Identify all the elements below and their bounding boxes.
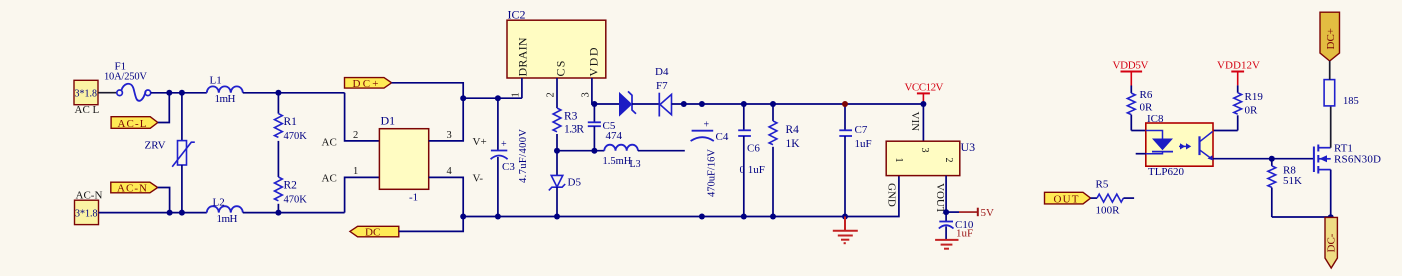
node junction xyxy=(495,214,501,220)
svg-text:AC: AC xyxy=(322,137,337,149)
svg-text:VCC12V: VCC12V xyxy=(905,82,944,94)
svg-text:1.3R: 1.3R xyxy=(564,124,584,136)
wire source xyxy=(1330,170,1332,218)
wire xyxy=(1130,86,1132,94)
port AC-N xyxy=(111,182,158,194)
svg-text:3: 3 xyxy=(919,148,930,153)
wire xyxy=(1272,216,1331,218)
wire xyxy=(158,188,170,213)
wire VOUT xyxy=(945,176,947,213)
wire xyxy=(392,83,464,98)
capacitor C7 xyxy=(839,104,871,217)
svg-text:U3: U3 xyxy=(961,140,976,154)
capacitor C3 xyxy=(491,98,529,216)
wire (V+ to rail) xyxy=(429,98,464,141)
ground (earth) xyxy=(833,217,858,244)
svg-text:1: 1 xyxy=(511,92,522,97)
svg-text:C3: C3 xyxy=(502,161,515,173)
wire xyxy=(243,212,345,214)
connector DC- xyxy=(1325,217,1338,268)
wire pin4 xyxy=(1213,130,1238,132)
svg-text:51K: 51K xyxy=(1283,175,1302,187)
node junction xyxy=(275,210,281,216)
svg-text:470uF/16V: 470uF/16V xyxy=(707,149,718,197)
wire xyxy=(151,92,207,94)
svg-text:+: + xyxy=(704,120,710,131)
svg-text:1mH: 1mH xyxy=(217,213,238,225)
svg-text:DC: DC xyxy=(365,227,380,239)
svg-text:1: 1 xyxy=(893,158,904,163)
svg-text:AC L: AC L xyxy=(75,104,100,116)
svg-text:R4: R4 xyxy=(786,124,800,136)
wire pin3 xyxy=(1213,158,1314,160)
svg-text:IC8: IC8 xyxy=(1147,113,1164,125)
wire xyxy=(1237,85,1239,92)
node junction xyxy=(920,101,926,107)
svg-text:2: 2 xyxy=(546,92,557,97)
power VCC12V xyxy=(905,82,944,105)
diode F7 xyxy=(655,66,923,117)
MOSFET RT1 xyxy=(1314,143,1381,174)
resistor 185 (box style) xyxy=(1324,80,1359,107)
resistor R6 xyxy=(1127,89,1153,131)
svg-text:RS6N30D: RS6N30D xyxy=(1334,154,1381,166)
svg-text:VDD12V: VDD12V xyxy=(1217,60,1260,72)
wire xyxy=(158,93,170,123)
resistor R2 xyxy=(275,177,308,213)
optocoupler IC8 TLP620 xyxy=(1136,113,1213,178)
wire DC+ rail xyxy=(463,97,522,99)
inductor L1 xyxy=(207,75,243,105)
wire xyxy=(638,150,685,152)
port DC+ xyxy=(345,78,392,90)
svg-text:GND: GND xyxy=(886,183,898,207)
power VDD12V xyxy=(1217,60,1260,86)
svg-text:TLP620: TLP620 xyxy=(1148,166,1185,178)
node junction xyxy=(554,148,560,154)
svg-text:+: + xyxy=(501,139,507,150)
node junction xyxy=(741,101,747,107)
svg-text:AC: AC xyxy=(322,173,337,185)
node junction xyxy=(166,90,172,96)
capacitor C5 xyxy=(588,104,623,151)
resistor R19 xyxy=(1234,91,1264,131)
svg-text:OUT: OUT xyxy=(1054,194,1079,206)
node junction xyxy=(1328,214,1334,220)
IC IC2 xyxy=(507,8,606,98)
connector DC+ xyxy=(1320,12,1340,61)
svg-text:D5: D5 xyxy=(568,177,582,189)
svg-text:R5: R5 xyxy=(1096,179,1109,191)
port OUT xyxy=(1045,192,1091,205)
svg-text:1.5mH: 1.5mH xyxy=(603,156,632,167)
svg-text:3*1.8: 3*1.8 xyxy=(75,209,98,220)
svg-text:VOUT: VOUT xyxy=(934,183,946,214)
port AC-L xyxy=(111,117,158,130)
svg-text:0R: 0R xyxy=(1140,102,1154,114)
svg-text:IC2: IC2 xyxy=(508,8,526,22)
svg-text:C6: C6 xyxy=(747,143,760,155)
svg-text:4: 4 xyxy=(447,166,453,177)
svg-text:CS: CS xyxy=(554,61,568,77)
node junction xyxy=(741,214,747,220)
power 5V xyxy=(946,207,994,219)
varistor ZRV xyxy=(145,93,195,213)
node junction (stub) xyxy=(699,214,705,220)
node junction xyxy=(275,90,281,96)
svg-text:R2: R2 xyxy=(284,180,298,192)
svg-text:L3: L3 xyxy=(630,159,641,170)
svg-text:100R: 100R xyxy=(1096,205,1121,217)
resistor R8 xyxy=(1268,159,1302,217)
svg-text:1mH: 1mH xyxy=(215,93,236,105)
svg-text:4.7uF/400V: 4.7uF/400V xyxy=(518,129,529,183)
svg-text:V-: V- xyxy=(473,173,484,185)
node junction xyxy=(681,101,687,107)
svg-text:0R: 0R xyxy=(1245,105,1259,117)
svg-text:5V: 5V xyxy=(981,207,995,219)
svg-text:470K: 470K xyxy=(284,195,308,206)
wire pin1 xyxy=(1131,130,1146,132)
node junction xyxy=(943,209,949,215)
svg-text:-1: -1 xyxy=(409,192,418,204)
svg-text:3: 3 xyxy=(447,130,452,141)
inductor L2 xyxy=(207,197,243,225)
svg-text:1uF: 1uF xyxy=(956,228,973,240)
svg-text:1uF: 1uF xyxy=(855,138,872,150)
svg-text:DRAIN: DRAIN xyxy=(516,37,530,76)
node junction xyxy=(591,101,597,107)
svg-text:1: 1 xyxy=(353,166,358,177)
svg-text:VDD: VDD xyxy=(587,47,601,76)
node junction xyxy=(554,214,560,220)
connector P2 (AC-N pad 3*1.8) xyxy=(75,190,103,225)
wire drain xyxy=(1330,106,1332,148)
svg-text:VDD5V: VDD5V xyxy=(1113,60,1149,72)
svg-text:DC-: DC- xyxy=(1326,233,1338,252)
wire pin1 xyxy=(521,78,523,98)
svg-text:R6: R6 xyxy=(1140,89,1153,101)
node junction xyxy=(1269,156,1275,162)
svg-text:C7: C7 xyxy=(855,124,868,136)
svg-text:ZRV: ZRV xyxy=(145,140,166,152)
wire ground rail xyxy=(463,176,899,217)
wire (V- down) xyxy=(429,177,464,216)
wire xyxy=(345,177,380,212)
regulator U3 xyxy=(886,112,976,214)
wire xyxy=(399,217,463,232)
node junction xyxy=(167,210,173,216)
wire xyxy=(1329,61,1331,80)
svg-text:F7: F7 xyxy=(656,80,668,92)
resistor R3 xyxy=(553,108,584,151)
bridge rectifier D1 xyxy=(322,114,487,204)
capacitor C10 xyxy=(939,212,974,240)
wire xyxy=(243,92,345,94)
node junction xyxy=(770,214,776,220)
resistor R4 xyxy=(769,104,800,217)
svg-text:2: 2 xyxy=(943,158,954,163)
svg-text:V+: V+ xyxy=(473,136,487,148)
svg-text:DC+: DC+ xyxy=(1325,28,1337,49)
svg-text:R3: R3 xyxy=(564,111,578,123)
svg-text:3: 3 xyxy=(581,92,592,97)
svg-text:10A/250V: 10A/250V xyxy=(104,72,147,83)
wire xyxy=(557,150,604,152)
svg-text:L1: L1 xyxy=(210,75,222,87)
node junction xyxy=(460,95,466,101)
svg-text:3*1.8: 3*1.8 xyxy=(75,89,98,100)
svg-text:2: 2 xyxy=(353,130,358,141)
wire VIN xyxy=(922,104,924,141)
wire xyxy=(98,92,117,94)
power VDD5V xyxy=(1113,60,1149,86)
capacitor C4 (floating) xyxy=(691,120,729,198)
wire xyxy=(99,212,207,214)
node junction xyxy=(179,210,185,216)
node junction xyxy=(460,214,466,220)
node junction xyxy=(770,101,776,107)
node junction xyxy=(591,148,597,154)
svg-text:AC-N: AC-N xyxy=(117,182,147,194)
node junction xyxy=(699,101,705,107)
svg-text:D4: D4 xyxy=(655,66,669,78)
port DC (DC-) xyxy=(350,226,399,238)
svg-text:R1: R1 xyxy=(284,116,298,128)
capacitor C6 xyxy=(738,104,765,217)
svg-text:DC+: DC+ xyxy=(353,78,379,90)
svg-text:C4: C4 xyxy=(716,131,729,143)
inductor L3 xyxy=(603,145,641,170)
fuse F1 xyxy=(104,61,151,101)
node junction (manual, red) xyxy=(842,101,848,107)
wire pin2 xyxy=(556,78,558,108)
zener diode D4 xyxy=(620,91,660,115)
connector P1 (AC L pad 3*1.8) xyxy=(74,80,100,116)
svg-text:185: 185 xyxy=(1343,96,1359,107)
svg-text:VIN: VIN xyxy=(909,112,921,132)
resistor R5 xyxy=(1091,179,1135,217)
ground (earth) xyxy=(935,240,958,249)
resistor R1 xyxy=(275,93,308,142)
svg-text:1K: 1K xyxy=(786,138,801,150)
wire xyxy=(345,93,380,141)
node junction xyxy=(842,214,848,220)
zener diode D5 xyxy=(549,151,582,217)
wire pin3 (VDD) xyxy=(592,78,621,104)
svg-text:R19: R19 xyxy=(1245,91,1264,103)
svg-text:474: 474 xyxy=(606,130,623,142)
svg-text:L2: L2 xyxy=(213,197,225,209)
wire xyxy=(277,141,279,177)
svg-text:AC-L: AC-L xyxy=(118,118,147,130)
svg-text:470K: 470K xyxy=(284,131,308,142)
node junction xyxy=(495,95,501,101)
node junction xyxy=(179,90,185,96)
svg-text:D1: D1 xyxy=(381,114,396,128)
